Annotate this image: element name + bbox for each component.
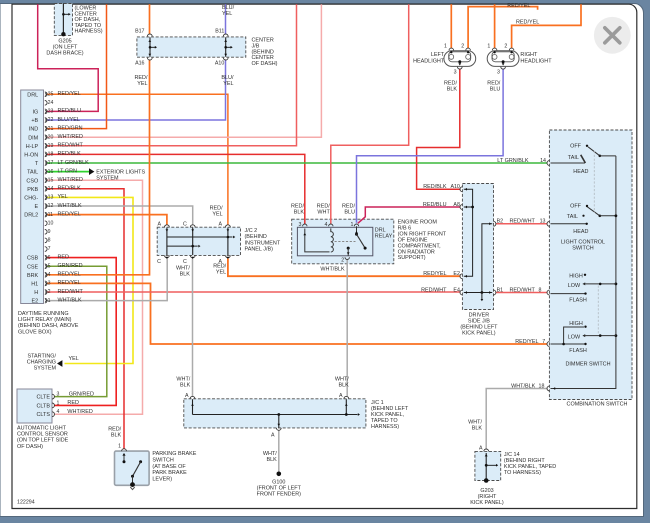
wire row17 LT GRN/BLK pin 17 to combination switch pin 14	[47, 162, 547, 164]
svg-text:DAYTIME RUNNING: DAYTIME RUNNING	[18, 311, 69, 317]
junction box G205 (dashed)	[54, 4, 72, 36]
svg-text:H-LP: H-LP	[26, 144, 39, 150]
svg-text:OF DASH): OF DASH)	[252, 61, 278, 67]
svg-text:OFF: OFF	[570, 204, 582, 210]
svg-text:CLTS: CLTS	[37, 412, 51, 418]
svg-text:1: 1	[118, 443, 121, 449]
svg-text:9: 9	[48, 229, 51, 235]
driver J/B pin arcs	[460, 187, 462, 192]
svg-text:A10: A10	[215, 61, 224, 67]
svg-text:19: 19	[48, 143, 54, 149]
wire WHT/BLK combination switch pin 18 to J/C14	[486, 389, 547, 450]
J/C1 internal legs	[192, 399, 194, 414]
svg-text:4: 4	[57, 409, 60, 415]
automatic light control sensor box	[17, 389, 52, 423]
lamp right headlight	[487, 51, 519, 67]
svg-text:WHT/RED: WHT/RED	[67, 409, 92, 415]
J/C2 internal legs and buses	[166, 228, 168, 255]
light control switch upper contacts	[586, 145, 588, 147]
svg-text:OF DASH): OF DASH)	[17, 444, 43, 450]
driver side J/B box	[462, 184, 493, 310]
svg-text:DRL: DRL	[27, 92, 38, 98]
svg-text:HIGH: HIGH	[569, 274, 583, 280]
svg-text:(BEHIND: (BEHIND	[245, 234, 267, 240]
wire WHT/BLK J/C1 pin A down to ground G100	[278, 430, 280, 472]
svg-text:C: C	[183, 259, 187, 265]
svg-text:B11: B11	[215, 28, 224, 34]
svg-text:HIGH: HIGH	[569, 321, 583, 327]
svg-text:BLK: BLK	[180, 272, 191, 278]
svg-text:PARK BRAKE: PARK BRAKE	[152, 470, 187, 476]
svg-text:(BEHIND DASH, ABOVE: (BEHIND DASH, ABOVE	[18, 323, 79, 329]
svg-text:BLK: BLK	[111, 433, 122, 439]
svg-text:7: 7	[48, 246, 51, 252]
wire row25 RED/YEL pin 25 to J/C2 pin A	[47, 94, 228, 225]
svg-text:25: 25	[48, 91, 54, 97]
combination switch box	[549, 130, 632, 400]
svg-text:E2: E2	[32, 299, 39, 305]
svg-text:+B: +B	[31, 118, 38, 124]
svg-text:AUTOMATIC LIGHT: AUTOMATIC LIGHT	[17, 426, 67, 432]
svg-text:J/C 2: J/C 2	[245, 228, 258, 234]
svg-text:WHT/BLK: WHT/BLK	[320, 267, 345, 273]
svg-text:3: 3	[454, 70, 457, 76]
svg-text:BLU: BLU	[490, 87, 501, 93]
svg-text:DASH BRACE): DASH BRACE)	[46, 50, 83, 56]
wire row14 RED/BLK pin 14 to parking brake switch	[47, 189, 124, 449]
svg-text:CSB: CSB	[27, 256, 39, 262]
svg-text:4: 4	[325, 222, 328, 228]
main connector pin arcs	[45, 298, 47, 303]
wire row1 WHT/BLK pin 1 to J/C2 pin C	[47, 258, 167, 300]
svg-text:H1: H1	[31, 282, 38, 288]
svg-text:6: 6	[48, 255, 51, 261]
light sensor pin arcs	[52, 394, 54, 399]
svg-text:COMBINATION SWITCH: COMBINATION SWITCH	[567, 402, 628, 408]
J/C 2 box	[157, 227, 240, 255]
svg-text:RED/BLK: RED/BLK	[423, 184, 447, 190]
J/C1 bus	[193, 414, 358, 416]
svg-text:BRK: BRK	[27, 273, 39, 279]
J/C2 bus A	[167, 236, 233, 238]
svg-text:LT GRN/BLK: LT GRN/BLK	[497, 158, 529, 164]
svg-text:LEVER): LEVER)	[152, 477, 172, 483]
svg-text:HARNESS): HARNESS)	[371, 424, 399, 430]
svg-text:WHT/BLK: WHT/BLK	[58, 203, 83, 209]
wire RED/YEL J/C2 pin A to driver J/B pin E2	[228, 258, 460, 276]
J/C 1 box	[184, 399, 366, 428]
svg-text:LOW: LOW	[568, 283, 581, 289]
svg-text:WHT/RED: WHT/RED	[58, 177, 83, 183]
wire RED/YEL feed to right headlight pin 1	[494, 4, 496, 48]
svg-text:PANEL J/B): PANEL J/B)	[245, 247, 274, 253]
svg-text:KICK PANEL): KICK PANEL)	[470, 500, 504, 506]
svg-text:BLU/YEL: BLU/YEL	[58, 117, 80, 123]
svg-text:2: 2	[461, 43, 464, 49]
svg-text:TAIL: TAIL	[567, 214, 578, 220]
svg-text:WHT/BLK: WHT/BLK	[58, 297, 83, 303]
svg-text:YEL: YEL	[58, 194, 68, 200]
svg-text:20: 20	[48, 134, 54, 140]
svg-text:CHG-: CHG-	[24, 196, 38, 202]
svg-text:HEAD: HEAD	[573, 229, 588, 235]
svg-text:11: 11	[48, 212, 53, 218]
svg-text:RED/YEL: RED/YEL	[515, 339, 538, 345]
center J/B internal leg B11-A10	[225, 37, 227, 57]
wire row3 RED/YEL pin 3 to dimmer switch pin 7	[47, 283, 547, 344]
DRL relay coil L1	[329, 224, 333, 226]
svg-text:13: 13	[48, 195, 54, 201]
J/C 14 box	[475, 451, 501, 480]
svg-text:CONTROL SENSOR: CONTROL SENSOR	[17, 432, 68, 438]
svg-text:IND: IND	[29, 127, 38, 133]
svg-text:CLTB: CLTB	[37, 403, 51, 409]
svg-text:10: 10	[48, 220, 54, 226]
driver J/B internal line A10-A8-E2	[464, 189, 473, 276]
DRL relay switch contact	[354, 224, 358, 226]
svg-text:RED/YEL: RED/YEL	[58, 272, 81, 278]
svg-text:FRONT FENDER): FRONT FENDER)	[257, 492, 301, 498]
DRL relay mechanical link (dashed)	[335, 241, 356, 243]
svg-text:TAIL: TAIL	[27, 170, 38, 176]
svg-text:GRN/RED: GRN/RED	[58, 263, 83, 269]
wire black into junction box G205	[62, 4, 64, 34]
wire row18 RED/BLK pin 18 to DRL relay pin 3	[47, 154, 305, 224]
DRL relay connector (main) box	[21, 90, 44, 304]
svg-text:RED/BLK: RED/BLK	[58, 186, 82, 192]
wire RED/YEL left headlight pin 2 jog at top	[468, 7, 537, 49]
svg-text:CSE: CSE	[27, 264, 39, 270]
svg-text:DRL2: DRL2	[24, 213, 38, 219]
svg-text:RED/YEL: RED/YEL	[58, 211, 81, 217]
DRL relay pin 2 arc	[345, 257, 349, 259]
node G205 junction dot and branch arrow	[62, 13, 65, 16]
svg-text:8: 8	[539, 287, 542, 293]
svg-text:RED/BLU: RED/BLU	[58, 108, 82, 114]
light control switch lower pole (pin 13)	[551, 223, 587, 225]
svg-text:14: 14	[48, 186, 54, 192]
svg-text:RED/YEL: RED/YEL	[507, 3, 530, 9]
svg-text:PKB: PKB	[27, 187, 38, 193]
svg-text:B17: B17	[135, 28, 144, 34]
svg-text:1: 1	[48, 298, 51, 304]
wire RED/WHT DRL relay pin 4 up to top	[331, 4, 409, 224]
ground G205	[61, 32, 65, 36]
svg-text:A: A	[218, 221, 222, 227]
dimmer switch upper (pin 8)	[584, 274, 586, 276]
starting/charging system arrow	[57, 360, 62, 367]
svg-text:B2: B2	[497, 219, 504, 225]
light control switch gang link (dashed)	[593, 151, 595, 213]
svg-text:BLK: BLK	[339, 383, 350, 389]
svg-text:RED/WHT: RED/WHT	[58, 143, 84, 149]
svg-text:E: E	[35, 204, 39, 210]
driver J/B A8 stub and junction	[464, 206, 473, 208]
svg-text:22: 22	[48, 117, 54, 123]
svg-text:RIGHT: RIGHT	[520, 52, 538, 58]
wire row20 WHT/RED pin 20 up to top	[47, 4, 321, 137]
svg-text:C: C	[157, 259, 161, 265]
svg-text:14: 14	[540, 158, 546, 164]
svg-text:A: A	[479, 445, 483, 451]
svg-text:RED/YEL: RED/YEL	[58, 280, 81, 286]
svg-text:H: H	[34, 290, 38, 296]
svg-text:A: A	[157, 221, 161, 227]
combination switch common bus to pin 18	[551, 156, 616, 389]
svg-text:YEL: YEL	[222, 11, 232, 17]
svg-text:WHT/BLK: WHT/BLK	[511, 383, 536, 389]
wire row12 WHT/BLK pin 12 to J/C2 pin C	[47, 206, 193, 225]
svg-text:7: 7	[542, 339, 545, 345]
DRL relay pin 3 internal leg	[303, 224, 307, 226]
svg-text:122294: 122294	[17, 500, 35, 506]
svg-text:12: 12	[48, 203, 54, 209]
svg-text:YEL: YEL	[223, 81, 233, 87]
wire row5 GRN/RED pin 5 to light sensor CLTE	[47, 266, 107, 396]
svg-text:LEFT: LEFT	[431, 52, 445, 58]
svg-text:BLK: BLK	[472, 426, 483, 432]
driver J/B internal line E4-B1	[464, 292, 492, 294]
svg-text:18: 18	[48, 152, 54, 158]
wire row15 WHT/RED pin 15 to light sensor CLTS	[47, 180, 143, 414]
svg-text:RED/WHT: RED/WHT	[421, 287, 447, 293]
svg-text:A: A	[185, 393, 189, 399]
light control switch upper pole (pin 14)	[551, 162, 586, 164]
svg-text:GRN/RED: GRN/RED	[69, 391, 94, 397]
svg-text:3: 3	[57, 392, 60, 398]
svg-text:LT GRN: LT GRN	[58, 168, 78, 174]
wire BLU/YEL center J/B B11 up to top	[225, 4, 227, 34]
driver J/B internal line B2-B1	[482, 224, 492, 293]
svg-text:IG: IG	[32, 110, 38, 116]
svg-text:4: 4	[48, 272, 51, 278]
svg-text:WHT: WHT	[317, 210, 330, 216]
svg-text:WHT/RED: WHT/RED	[58, 134, 83, 140]
svg-text:3: 3	[48, 281, 51, 287]
svg-text:HEADLIGHT: HEADLIGHT	[413, 58, 445, 64]
svg-text:17: 17	[48, 160, 54, 166]
svg-text:(ON TOP LEFT SIDE: (ON TOP LEFT SIDE	[17, 438, 69, 444]
svg-text:PARKING BRAKE: PARKING BRAKE	[152, 451, 196, 457]
svg-text:18: 18	[539, 383, 545, 389]
svg-text:13: 13	[540, 219, 546, 225]
svg-text:2: 2	[341, 258, 344, 264]
wire row16 LT GRN pin 16 to exterior lights arrow	[47, 171, 90, 173]
wire RED/BLU right headlight pin 3 to DRL relay pin 1	[357, 69, 504, 223]
svg-text:LOW: LOW	[568, 335, 581, 341]
wire row23 RED/BLU pin 23 up to top	[38, 4, 98, 111]
svg-text:BLU: BLU	[344, 210, 355, 216]
svg-text:RED/WHT: RED/WHT	[510, 287, 536, 293]
svg-text:2: 2	[48, 289, 51, 295]
svg-text:1: 1	[57, 400, 60, 406]
wire row19 RED/WHT pin 19 up to top	[47, 4, 297, 146]
close button	[594, 17, 631, 54]
svg-text:YEL: YEL	[137, 81, 147, 87]
svg-text:24: 24	[48, 100, 54, 106]
svg-text:A10: A10	[450, 184, 459, 190]
svg-text:GLOVE BOX): GLOVE BOX)	[18, 329, 52, 335]
svg-text:(AT BASE OF: (AT BASE OF	[152, 464, 186, 470]
svg-text:INSTRUMENT: INSTRUMENT	[245, 240, 281, 246]
svg-text:DIM: DIM	[28, 135, 38, 141]
DRL relay U1 box	[297, 227, 372, 256]
svg-text:2: 2	[504, 43, 507, 49]
svg-text:H-ON: H-ON	[24, 153, 38, 159]
svg-text:FLASH: FLASH	[569, 348, 587, 354]
svg-text:DIMMER SWITCH: DIMMER SWITCH	[565, 362, 610, 368]
svg-text:15: 15	[48, 177, 54, 183]
svg-text:1: 1	[444, 43, 447, 49]
J/C14 internal leg and branch	[485, 453, 487, 480]
svg-text:RED/YEL: RED/YEL	[423, 271, 446, 277]
center J/B box	[137, 37, 246, 57]
svg-text:A: A	[339, 393, 343, 399]
svg-text:CSO: CSO	[26, 178, 38, 184]
svg-text:23: 23	[48, 109, 54, 115]
ground G203	[484, 478, 489, 483]
dimmer switch lower (pin 7)	[584, 326, 586, 328]
svg-text:RED/WHT: RED/WHT	[58, 289, 84, 295]
svg-text:HARNESS): HARNESS)	[75, 29, 103, 35]
combination switch pin arcs	[547, 161, 549, 166]
wire RED/YEL feed to left headlight pin 1	[450, 4, 452, 48]
svg-text:RED: RED	[67, 400, 79, 406]
wire row13 YEL pin 13 to starting/charging arrow	[47, 197, 133, 363]
wire WHT/BLK J/C2 pin C down to J/C1 pin A	[192, 258, 194, 396]
svg-text:BLK: BLK	[180, 383, 191, 389]
svg-text:RED/WHT: RED/WHT	[510, 219, 536, 225]
svg-text:E2: E2	[453, 271, 460, 277]
svg-text:RED/YEL: RED/YEL	[58, 91, 81, 97]
svg-text:3: 3	[497, 70, 500, 76]
svg-text:YEL: YEL	[69, 356, 79, 362]
wire WHT/BLK relay pin 2 down to J/C1 pin A	[346, 260, 348, 397]
svg-text:SYSTEM: SYSTEM	[34, 366, 57, 372]
svg-text:16: 16	[48, 169, 54, 175]
svg-text:C: C	[183, 221, 187, 227]
svg-text:RELAY: RELAY	[375, 234, 393, 240]
wire row21 RED/GRN pin 21 up to top	[47, 4, 107, 128]
svg-text:SWITCH: SWITCH	[572, 246, 594, 252]
svg-text:RED/BLU: RED/BLU	[423, 202, 447, 208]
svg-text:A8: A8	[453, 202, 460, 208]
svg-text:TO HARNESS): TO HARNESS)	[504, 470, 541, 476]
engine room R/B box	[292, 219, 394, 264]
svg-text:YEL: YEL	[212, 212, 222, 218]
svg-text:21: 21	[48, 126, 54, 132]
svg-text:B1: B1	[497, 287, 504, 293]
wire RED/YEL right headlight pin 2 to top right	[512, 4, 581, 48]
svg-text:1: 1	[350, 222, 353, 228]
dimmer switch gang link (dashed)	[597, 286, 599, 335]
wire RED/WHT driver J/B pin B1 to dimmer switch pin 8	[496, 292, 548, 294]
svg-text:BLK: BLK	[267, 457, 278, 463]
svg-text:BLK: BLK	[294, 210, 305, 216]
svg-text:A: A	[271, 433, 275, 439]
svg-text:YEL: YEL	[216, 270, 226, 276]
svg-text:3: 3	[299, 222, 302, 228]
svg-text:SWITCH: SWITCH	[152, 457, 174, 463]
svg-text:RED/GRN: RED/GRN	[58, 125, 83, 131]
parking brake switch SW1 box	[115, 451, 150, 485]
wire row2 RED/WHT pin 2 to driver J/B pin E4	[47, 291, 460, 293]
wire row11 RED/YEL pin 11 to J/C2 pin A	[47, 215, 167, 225]
svg-text:RED/BLK: RED/BLK	[58, 151, 82, 157]
wire RED/BLU branch to driver J/B pin A8	[358, 207, 461, 223]
svg-text:E4: E4	[453, 287, 460, 293]
wire RED/WHT driver J/B pin B2 to light control switch pin 13	[496, 223, 548, 225]
svg-text:8: 8	[48, 238, 51, 244]
svg-text:RED/YEL: RED/YEL	[516, 20, 539, 26]
svg-text:1: 1	[487, 43, 490, 49]
svg-text:TAIL: TAIL	[568, 155, 579, 161]
wire row22 BLU/YEL pin 22 through center J/B to top	[47, 60, 226, 120]
svg-text:5: 5	[48, 263, 51, 269]
svg-text:KICK PANEL): KICK PANEL)	[462, 331, 496, 337]
wire row4 RED/YEL pin 4 up through center J/B to top	[47, 60, 150, 275]
parking brake switch internals	[122, 449, 127, 451]
wire RED/BLK left headlight pin 3 to driver J/B pin A10	[417, 69, 461, 189]
svg-text:CLTE: CLTE	[37, 395, 51, 401]
svg-text:FLASH: FLASH	[569, 298, 587, 304]
wire RED/YEL center J/B B17 up to top	[149, 4, 151, 34]
J/C2 bus C	[167, 245, 198, 247]
center J/B internal leg B17-A16	[149, 37, 151, 57]
svg-text:OFF: OFF	[570, 143, 582, 149]
svg-text:HEAD: HEAD	[573, 169, 588, 175]
wire row6 RED pin 6 to light sensor CLTB	[47, 258, 116, 406]
svg-text:SUPPORT): SUPPORT)	[398, 255, 426, 261]
svg-text:SYSTEM: SYSTEM	[96, 175, 119, 181]
exterior lights system arrow	[89, 168, 94, 175]
lamp left headlight	[444, 51, 476, 67]
svg-text:A16: A16	[135, 61, 144, 67]
svg-text:RED: RED	[58, 254, 70, 260]
svg-text:LT GRN/BLK: LT GRN/BLK	[58, 160, 90, 166]
light control switch lower contacts	[586, 205, 588, 207]
svg-text:HEADLIGHT: HEADLIGHT	[520, 58, 552, 64]
svg-text:LIGHT RELAY (MAIN): LIGHT RELAY (MAIN)	[18, 317, 72, 323]
ground G100	[277, 472, 282, 477]
svg-text:BLK: BLK	[447, 87, 458, 93]
